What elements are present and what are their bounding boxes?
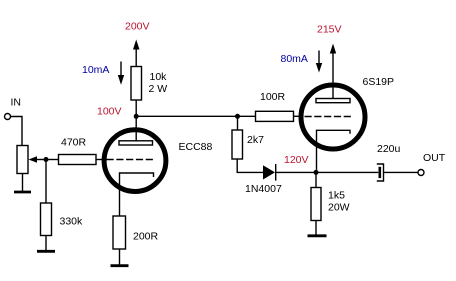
svg-text:470R: 470R bbox=[61, 137, 87, 149]
svg-text:330k: 330k bbox=[60, 216, 84, 228]
wire 200R to ground bbox=[119, 249, 121, 265]
resistor 330k bbox=[41, 203, 52, 236]
node 2k7 junction bbox=[235, 114, 240, 119]
resistor 1k5 bbox=[311, 188, 321, 221]
svg-text:215V: 215V bbox=[317, 24, 342, 36]
wire 10k to 200V arrow bbox=[133, 40, 140, 67]
svg-text:200V: 200V bbox=[125, 21, 150, 33]
resistor 2k7 bbox=[232, 130, 243, 159]
wire 6S19P anode to 215V arrow bbox=[330, 44, 336, 99]
wire capacitor to OUT bbox=[384, 171, 419, 173]
node 100V junction bbox=[134, 114, 139, 119]
wire input to potentiometer bbox=[11, 117, 23, 146]
svg-text:1N4007: 1N4007 bbox=[245, 183, 282, 195]
wire diode to 120V node bbox=[276, 171, 316, 173]
wire 2k7 to diode bbox=[237, 159, 263, 172]
svg-text:ECC88: ECC88 bbox=[179, 141, 213, 153]
svg-text:10mA: 10mA bbox=[82, 64, 109, 76]
current arrow 10mA bbox=[118, 62, 124, 85]
svg-text:2k7: 2k7 bbox=[247, 134, 264, 146]
wire 470R to ECC88 grid bbox=[96, 159, 105, 161]
potentiometer body bbox=[17, 146, 28, 174]
input terminal bbox=[5, 114, 11, 120]
6S19P grid (dashed) bbox=[305, 116, 353, 118]
wire junction to 330k bbox=[45, 160, 47, 204]
output terminal bbox=[418, 170, 424, 176]
wire potentiometer to ground bbox=[22, 174, 24, 192]
svg-text:6S19P: 6S19P bbox=[363, 76, 395, 88]
svg-text:OUT: OUT bbox=[423, 152, 446, 164]
svg-text:120V: 120V bbox=[284, 154, 309, 166]
ECC88 anode bbox=[119, 141, 153, 145]
svg-text:IN: IN bbox=[11, 97, 22, 109]
wire 330k to ground bbox=[45, 236, 47, 251]
wire 120V node to capacitor bbox=[316, 171, 378, 173]
resistor 470R bbox=[59, 155, 97, 165]
diode D1 1N4007 bbox=[263, 164, 276, 181]
capacitor C1 220u positive plate bbox=[378, 167, 381, 178]
svg-text:220u: 220u bbox=[377, 143, 401, 155]
ground bbox=[111, 264, 129, 267]
current arrow 80mA bbox=[316, 51, 322, 73]
wire 1k5 to ground bbox=[315, 221, 317, 235]
6S19P anode bbox=[316, 99, 350, 103]
svg-text:20W: 20W bbox=[328, 202, 350, 214]
ECC88 grid (dashed) bbox=[107, 159, 156, 161]
capacitor C1 negative plate bracket bbox=[377, 164, 384, 181]
svg-text:200R: 200R bbox=[133, 231, 159, 243]
ECC88 cathode bbox=[120, 173, 154, 216]
svg-text:100R: 100R bbox=[260, 91, 286, 103]
ground bbox=[37, 250, 55, 253]
wire 120V node to 1k5 bbox=[315, 172, 317, 187]
resistor 100R bbox=[256, 111, 294, 121]
ground bbox=[308, 234, 327, 237]
triode U1 envelope ECC88 bbox=[104, 130, 166, 192]
svg-text:80mA: 80mA bbox=[281, 53, 308, 65]
wire junction to 2k7 bbox=[237, 116, 239, 130]
wire ECC88 anode to 100V node bbox=[135, 100, 137, 142]
potentiometer wiper arrow bbox=[29, 156, 47, 163]
svg-text:10k: 10k bbox=[150, 71, 168, 83]
wire 100R to 6S19P grid bbox=[294, 115, 303, 117]
node 120V junction bbox=[314, 170, 319, 175]
svg-text:2 W: 2 W bbox=[149, 83, 168, 95]
6S19P cathode and lead to 120V node bbox=[317, 130, 351, 172]
node wiper junction bbox=[44, 157, 49, 162]
svg-text:100V: 100V bbox=[97, 106, 122, 118]
resistor 10k bbox=[131, 67, 142, 101]
wire 100V node to 2k7 node and 100R bbox=[136, 115, 255, 117]
triode U2 envelope 6S19P bbox=[301, 85, 365, 149]
ground bbox=[14, 191, 31, 194]
svg-text:1k5: 1k5 bbox=[328, 190, 345, 202]
wire junction to 470R bbox=[46, 159, 59, 161]
resistor 200R bbox=[113, 216, 126, 249]
